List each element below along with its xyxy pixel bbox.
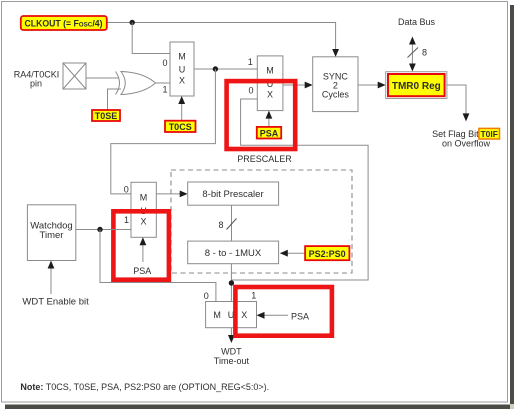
wire TMR0 output down to flag [447, 85, 466, 116]
wire SYNC output to TMR0 [358, 84, 380, 86]
pin label 0 MUX2 [248, 85, 253, 95]
highlight red box 3 (MUX4/PSA) [235, 287, 332, 336]
arrowhead into SYNC top [332, 49, 339, 57]
label on Overflow [442, 139, 491, 149]
block MUX2 [257, 56, 283, 111]
svg-text:X: X [140, 217, 146, 227]
wire WDT output to MUX3 input 1 [76, 229, 131, 231]
label CLKOUT box [21, 16, 107, 30]
svg-text:X: X [179, 76, 185, 86]
label PRESCALER [237, 154, 292, 164]
wire T0SE to XOR lower input [108, 89, 122, 110]
wire prescaler to 8-to-1 mux [231, 205, 233, 241]
svg-text:8: 8 [422, 48, 427, 58]
block MUX4 [206, 302, 257, 328]
highlight red box 2 (MUX3/PSA) [113, 211, 168, 279]
label WDT Time-out [214, 346, 250, 366]
XOR gate [116, 72, 156, 95]
frame shadow right [510, 5, 514, 404]
label T0SE [92, 110, 120, 121]
wire MUX3 output to prescaler [156, 193, 182, 195]
svg-text:0: 0 [248, 85, 253, 95]
block Watchdog Timer [27, 205, 75, 261]
highlight red box 1 (MUX2/PSA) [227, 81, 296, 149]
wire MUX2 output to SYNC [283, 84, 307, 86]
svg-text:T0SE: T0SE [95, 111, 118, 121]
svg-text:TMR0 Reg: TMR0 Reg [392, 81, 441, 92]
wire down to prescaler MUX3 input 0 [111, 69, 216, 194]
svg-text:PSA: PSA [260, 128, 279, 138]
label WDT Enable bit [22, 296, 89, 307]
arrowhead into MUX3 bottom [140, 237, 147, 245]
arrowhead into MUX2 bottom [266, 111, 273, 119]
svg-text:Note: T0CS, T0SE, PSA, PS2:PS0: Note: T0CS, T0SE, PSA, PS2:PS0 are (OPTI… [20, 382, 269, 392]
arrowhead into WDT bottom [48, 261, 55, 269]
svg-text:M: M [266, 66, 274, 76]
label T0CS [165, 121, 196, 132]
flag T0IF [479, 128, 500, 139]
wire 8-to-1 mux output down through MUX4 [230, 264, 232, 337]
label RA4/T0CKI pin [14, 69, 60, 88]
arrowhead into TMR0 left [378, 82, 386, 89]
wire WDT junction down to MUX4 input 0 [100, 230, 216, 302]
svg-text:on Overflow: on Overflow [442, 139, 491, 149]
label PS2:PS0 [305, 246, 349, 260]
svg-text:Set Flag Bit: Set Flag Bit [432, 129, 479, 139]
svg-text:X: X [267, 90, 273, 100]
svg-text:WDT: WDT [221, 346, 242, 356]
wire T0CS arrow into MUX1 [181, 100, 183, 121]
wire PS2:PS0 arrow into 8-to-1 mux [286, 252, 306, 254]
wire data bus double arrow [411, 40, 413, 67]
wire loop prescaler output to MUX2 input 0 [231, 99, 368, 280]
label Set Flag Bit [432, 129, 479, 139]
svg-text:Cycles: Cycles [322, 90, 350, 100]
arrowhead WDT time-out [228, 335, 235, 343]
svg-text:8: 8 [218, 220, 223, 230]
block 8-to-1 MUX [188, 241, 279, 264]
frame shadow bottom [5, 404, 514, 409]
node junction WDT output [97, 227, 102, 232]
label PSA at MUX4 [291, 311, 309, 321]
arrowhead into prescaler left [180, 191, 188, 198]
pin pad X-box [63, 63, 86, 89]
svg-text:pin: pin [30, 78, 42, 88]
svg-text:1: 1 [162, 85, 167, 95]
pin label 1 MUX1 [162, 85, 167, 95]
svg-text:PSA: PSA [133, 266, 151, 276]
svg-text:Data Bus: Data Bus [398, 17, 436, 27]
svg-text:8-bit Prescaler: 8-bit Prescaler [202, 189, 263, 200]
svg-text:1: 1 [248, 57, 253, 67]
pin label 0 MUX3 [124, 184, 129, 194]
pin label 1 MUX3 [124, 215, 129, 225]
svg-text:0: 0 [124, 184, 129, 194]
svg-text:PRESCALER: PRESCALER [237, 154, 292, 164]
label Data Bus [398, 17, 436, 27]
svg-text:1: 1 [251, 291, 256, 301]
wire PSA arrow into MUX3 [142, 243, 144, 262]
svg-text:M: M [178, 52, 186, 62]
prescaler dashed box [171, 170, 352, 273]
node junction MUX1 output [213, 66, 218, 71]
block MUX1 [170, 42, 194, 96]
svg-text:T0IF: T0IF [480, 129, 497, 139]
svg-text:WDT Enable bit: WDT Enable bit [22, 296, 89, 307]
svg-text:T0CS: T0CS [169, 122, 192, 132]
bus width 8 label [218, 220, 223, 230]
svg-text:M U X: M U X [213, 310, 249, 320]
block 8-bit Prescaler [188, 182, 279, 205]
block SYNC 2 Cycles [313, 57, 358, 112]
bus width 8 [422, 48, 427, 58]
wire WDT Enable arrow [50, 266, 52, 294]
arrowhead up data bus [409, 37, 416, 45]
wire PSA arrow into MUX4 [262, 314, 288, 316]
svg-text:0: 0 [162, 58, 167, 68]
arrowhead down into TMR0 top [409, 64, 416, 72]
label PSA under MUX2 [257, 127, 281, 139]
block MUX3 [131, 182, 156, 237]
note text [20, 382, 269, 392]
svg-text:0: 0 [204, 291, 209, 301]
svg-text:1: 1 [124, 215, 129, 225]
svg-text:Timer: Timer [40, 230, 64, 241]
pin label 1 MUX4 [251, 291, 256, 301]
svg-text:U: U [179, 65, 186, 75]
node junction prescaler output [229, 280, 234, 285]
pin label 0 MUX1 [162, 58, 167, 68]
wire MUX1 output to MUX2 input 1 [194, 68, 257, 70]
wire CLKOUT to SYNC top [107, 23, 336, 52]
wire to MUX1 input 0 [132, 23, 170, 54]
pin label 1 MUX2 [248, 57, 253, 67]
wire PSA arrow into MUX2 [268, 115, 270, 127]
arrowhead into MUX1 bottom [178, 96, 185, 104]
arrowhead into 8-to-1 mux right [280, 250, 288, 257]
svg-text:PS2:PS0: PS2:PS0 [309, 249, 346, 259]
wire X-box to XOR [86, 77, 119, 79]
svg-text:PSA: PSA [291, 311, 309, 321]
arrowhead into SYNC left [305, 82, 313, 89]
arrowhead down to flag text [463, 113, 470, 121]
svg-text:M: M [140, 193, 148, 203]
arrowhead into MUX4 right [257, 312, 265, 319]
svg-text:Time-out: Time-out [214, 356, 250, 366]
svg-text:8 - to - 1MUX: 8 - to - 1MUX [205, 248, 262, 259]
register TMR0 Reg [386, 72, 447, 99]
wire XOR output to MUX1 input 1 [156, 82, 171, 84]
pin label 0 MUX4 [204, 291, 209, 301]
bus slash 8 [227, 219, 237, 230]
node junction on CLKOUT wire [130, 20, 135, 25]
label PSA under MUX3 [133, 266, 151, 276]
bus slash [408, 48, 419, 58]
